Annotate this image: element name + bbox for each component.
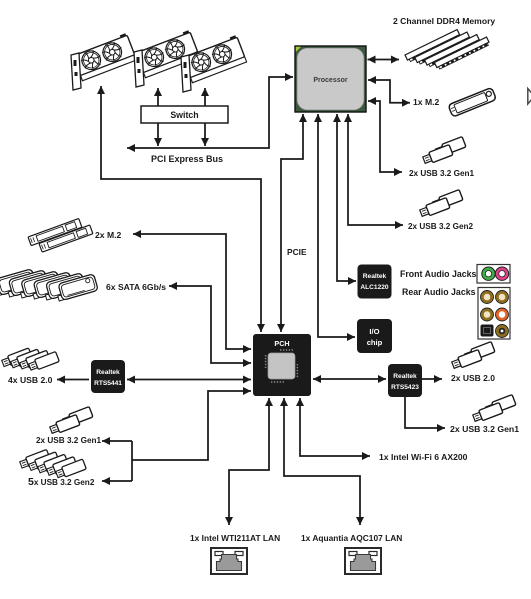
svg-text:Realtek: Realtek: [363, 273, 387, 280]
svg-text:2x USB 3.2 Gen1: 2x USB 3.2 Gen1: [36, 436, 102, 445]
2x USB 3.2 Gen2 icons (right): [419, 190, 463, 219]
graphics card 3: [181, 35, 247, 92]
wire Processor to 2x USB 3.2 Gen2: [348, 114, 403, 225]
svg-text:RTS5441: RTS5441: [94, 380, 122, 387]
svg-text:Switch: Switch: [170, 110, 198, 120]
wire bracket vertical: [131, 441, 133, 481]
rear audio jacks panel: [478, 288, 510, 340]
wire bracket to 2x USB 3.2 Gen1: [102, 440, 132, 442]
wire PCH to Wi-Fi: [300, 398, 370, 456]
wire Processor to PCH: [281, 114, 303, 332]
wire PCH to 2x M.2: [133, 234, 251, 349]
wire Switch to GPU2: [157, 88, 159, 146]
4x USB 2.0 icons (left): [1, 348, 59, 372]
svg-text:5x USB 3.2 Gen2: 5x USB 3.2 Gen2: [28, 476, 95, 488]
wire Realtek RTS5423 to 2x USB 3.2 Gen1: [405, 397, 445, 428]
svg-text:Rear Audio Jacks: Rear Audio Jacks: [402, 287, 476, 297]
svg-text:2 Channel DDR4 Memory: 2 Channel DDR4 Memory: [393, 16, 495, 26]
Intel LAN port: [211, 548, 247, 574]
svg-text:1x Intel Wi-Fi 6 AX200: 1x Intel Wi-Fi 6 AX200: [379, 452, 468, 462]
6x SATA drive icons: [0, 269, 98, 302]
svg-text:1x M.2: 1x M.2: [413, 97, 439, 107]
wire PCH to 6x SATA: [169, 286, 251, 363]
svg-text:chip: chip: [367, 338, 383, 347]
svg-text:Processor: Processor: [313, 77, 348, 84]
2x USB 3.2 Gen1 icons (bottom left): [49, 407, 93, 436]
Realtek ALC1220: [358, 265, 392, 299]
graphics card 2: [134, 30, 200, 87]
wire Processor to Realtek ALC1220: [337, 114, 356, 281]
svg-text:2x USB 3.2 Gen1: 2x USB 3.2 Gen1: [409, 169, 475, 178]
wire PCH to USB 3.2 bracket: [132, 391, 251, 460]
DDR4 memory sticks: [405, 30, 490, 70]
svg-text:RTS5423: RTS5423: [391, 384, 419, 391]
svg-text:I/O: I/O: [369, 327, 379, 336]
PCH chip: [253, 334, 311, 396]
svg-text:2x USB 3.2 Gen2: 2x USB 3.2 Gen2: [408, 222, 474, 231]
5x USB 3.2 Gen2 icons (bottom left): [19, 449, 86, 479]
wire Realtek RTS5441 to 4x USB 2.0: [57, 379, 89, 381]
svg-text:Realtek: Realtek: [393, 373, 417, 380]
2x USB 2.0 icons (right): [451, 342, 495, 371]
svg-text:PCH: PCH: [274, 339, 289, 348]
graphics card 1: [71, 33, 137, 90]
Aquantia LAN port: [345, 548, 381, 574]
2x USB 3.2 Gen1 icons (lower right): [472, 395, 516, 424]
front audio jacks panel: [477, 265, 510, 284]
svg-text:4x USB 2.0: 4x USB 2.0: [8, 375, 53, 385]
wire PCI Express Bus to Processor: [127, 77, 293, 148]
1x M.2 SSD icon: [448, 87, 496, 117]
wire Realtek RTS5423 to 2x USB 2.0: [422, 378, 442, 380]
svg-text:2x M.2: 2x M.2: [95, 230, 121, 240]
switch box: [141, 106, 228, 123]
wire Processor to 1x M.2: [368, 80, 410, 103]
svg-text:2x USB 2.0: 2x USB 2.0: [451, 373, 495, 383]
wire PCH to Realtek RTS5423: [313, 378, 386, 380]
svg-text:PCI Express Bus: PCI Express Bus: [151, 154, 223, 164]
page nav triangle: [528, 89, 531, 105]
svg-text:Front Audio Jacks: Front Audio Jacks: [400, 269, 477, 279]
svg-text:Realtek: Realtek: [96, 369, 120, 376]
processor U1: [295, 46, 366, 112]
svg-text:1x Intel WTI211AT LAN: 1x Intel WTI211AT LAN: [190, 533, 280, 543]
wire Processor to DDR4 memory: [368, 59, 400, 61]
svg-text:ALC1220: ALC1220: [360, 284, 389, 291]
wire Switch to GPU3: [204, 88, 206, 146]
wire Processor to I/O chip: [318, 114, 355, 337]
2x USB 3.2 Gen1 icons (top right): [422, 137, 466, 166]
2x M.2 SSD icons: [28, 219, 93, 253]
svg-text:PCIE: PCIE: [287, 247, 307, 257]
Realtek RTS5441: [91, 360, 125, 393]
wire PCH to Intel LAN: [229, 398, 269, 525]
wire bracket to 5x USB 3.2 Gen2: [102, 480, 132, 482]
svg-text:6x SATA 6Gb/s: 6x SATA 6Gb/s: [106, 282, 166, 292]
wire GPU1 to PCH: [101, 86, 261, 332]
I/O chip: [357, 319, 392, 353]
Realtek RTS5423: [388, 364, 422, 397]
wire Processor to 2x USB 3.2 Gen1: [368, 101, 402, 172]
wire PCH to Realtek RTS5441: [127, 379, 251, 381]
svg-text:2x USB 3.2 Gen1: 2x USB 3.2 Gen1: [450, 424, 519, 434]
svg-text:1x Aquantia AQC107 LAN: 1x Aquantia AQC107 LAN: [301, 533, 402, 543]
wire PCH to Aquantia LAN: [284, 398, 360, 525]
